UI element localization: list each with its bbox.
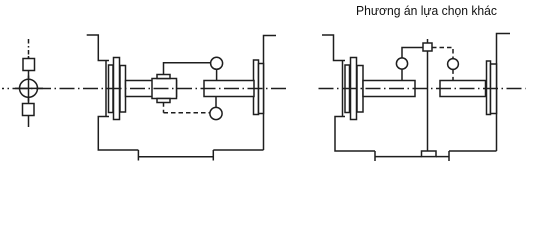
right diagram shaft 2 bbox=[440, 81, 486, 97]
coupling flange B1 bbox=[109, 65, 114, 113]
right housing left wall bbox=[322, 35, 345, 61]
left housing right bearing flange plate bbox=[254, 60, 259, 115]
right housing right bearing flange plate bbox=[487, 61, 491, 115]
right bearing boss face bbox=[342, 61, 344, 117]
input shaft 1 bbox=[126, 81, 177, 97]
crosshair horizontal bbox=[15, 87, 43, 89]
left housing bottom lip tick right bbox=[212, 150, 214, 161]
coupling flange B2 bbox=[114, 58, 120, 120]
hub bottom tab bbox=[157, 99, 170, 103]
shaft 2 to circle 2 link bbox=[215, 97, 217, 108]
sensor circle 2 bbox=[210, 107, 222, 119]
circle 1 to shaft 2 link bbox=[216, 69, 218, 80]
vertical rod from square to pedestal bbox=[427, 51, 429, 151]
motor circle with crosshair bbox=[20, 79, 38, 97]
left housing left wall bbox=[87, 35, 109, 61]
right coupling flange C2 bbox=[351, 58, 357, 120]
right diagram main centerline bbox=[319, 88, 526, 90]
right housing bottom lip tick right bbox=[448, 151, 450, 161]
left sensor link top: tab to circle bbox=[164, 63, 211, 75]
left input symbol vertical centerline bbox=[28, 39, 30, 58]
left bearing boss face bbox=[105, 61, 107, 117]
pulley square top bbox=[23, 59, 35, 71]
hub top tab bbox=[157, 75, 170, 79]
coupling flange B3 bbox=[120, 66, 126, 113]
sensor circle R1 bbox=[396, 58, 407, 69]
circle R1 link down to shaft bbox=[401, 69, 403, 80]
right housing right inner plate bbox=[491, 64, 497, 114]
left housing right inner plate bbox=[259, 64, 264, 114]
right coupling flange C1 bbox=[345, 65, 350, 113]
shaft 2 (output) bbox=[204, 81, 254, 97]
right coupling flange C3 bbox=[357, 66, 363, 113]
left housing base line bbox=[138, 156, 213, 158]
left input symbol vertical solid axis bbox=[28, 56, 30, 127]
right housing bottom lip tick left bbox=[374, 151, 376, 161]
square top stub bbox=[427, 39, 429, 43]
right housing base line left part bbox=[375, 156, 422, 158]
left housing bottom lip tick left bbox=[137, 150, 139, 161]
junction square node bbox=[423, 43, 432, 51]
dashed link from hub bottom tab bbox=[163, 102, 165, 113]
dashed link horizontal to circle 2 bbox=[164, 112, 210, 114]
svg-text:Phương án lựa chọn khác: Phương án lựa chọn khác bbox=[356, 3, 497, 18]
sensor circle 1 bbox=[211, 57, 223, 69]
circle R1 link up and to square bbox=[402, 48, 423, 58]
right housing lower ledge and wall to base bbox=[335, 117, 375, 152]
left diagram main centerline bbox=[2, 88, 289, 90]
right housing base line right part bbox=[436, 156, 449, 158]
dashed link circle R2 to shaft bbox=[452, 69, 454, 80]
hub on shaft 1 bbox=[152, 79, 177, 99]
left housing right wall bbox=[264, 36, 277, 151]
right diagram shaft 1 bbox=[363, 81, 415, 97]
left housing bottom right segment bbox=[213, 149, 263, 151]
right housing right wall bbox=[497, 34, 511, 152]
dashed link square to circle R2 bbox=[432, 48, 453, 59]
left housing lower ledge and wall to base bbox=[98, 117, 138, 151]
right housing bottom right segment bbox=[449, 150, 497, 152]
pedestal under vertical rod bbox=[422, 151, 437, 157]
pulley square bottom bbox=[23, 104, 35, 116]
sensor circle R2 bbox=[448, 59, 459, 70]
crosshair vertical bbox=[28, 76, 30, 102]
